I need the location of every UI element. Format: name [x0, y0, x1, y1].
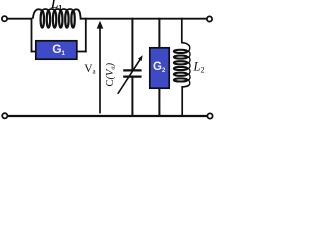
wire right bracket vertical	[85, 18, 87, 53]
svg-text:L2: L2	[193, 59, 205, 74]
terminal bottom-left	[2, 113, 7, 118]
wire top rail right segment	[85, 18, 207, 20]
capacitor C(Va) top lead	[131, 18, 133, 71]
wire left stub to G1	[31, 51, 36, 53]
terminal bottom-right	[207, 113, 212, 118]
capacitor C(Va) top plate	[123, 69, 141, 71]
conductance G1	[36, 41, 77, 59]
inductor L2 bottom lead	[181, 86, 183, 116]
inductor L2 top lead	[181, 18, 183, 44]
conductance G2	[150, 48, 169, 88]
svg-text:L1: L1	[50, 0, 62, 12]
terminal top-right	[207, 16, 212, 21]
wire left bracket vertical	[31, 18, 33, 53]
conductance G2 bottom lead	[158, 88, 160, 116]
inductor L2	[174, 43, 190, 87]
svg-text:Va: Va	[84, 63, 96, 76]
capacitor variable arrow	[118, 59, 141, 94]
wire top rail left segment	[7, 18, 32, 20]
conductance G2 top lead	[158, 18, 160, 48]
capacitor C(Va) bottom lead	[131, 77, 133, 116]
arrow Va annotation	[99, 28, 101, 114]
svg-text:C(Va): C(Va)	[105, 62, 116, 86]
inductor L1	[33, 9, 86, 28]
wire right stub from G1	[77, 51, 87, 53]
capacitor C(Va) bottom plate	[123, 75, 141, 77]
terminal top-left	[2, 16, 7, 21]
wire bottom rail	[8, 115, 208, 117]
